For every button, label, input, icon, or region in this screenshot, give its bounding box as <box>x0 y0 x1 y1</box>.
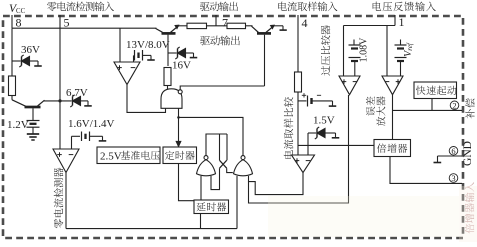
battery 1.08V reference <box>353 40 355 46</box>
NOR latch gate GA body <box>197 160 216 176</box>
label voltage feedback input (top) <box>373 2 382 11</box>
wire pin5 down to node A already; node A down to ZCD comparator <box>59 101 61 149</box>
resistor R2 drive output <box>187 23 207 28</box>
transistor Q1 emitter wire <box>32 108 34 120</box>
GA output bubble <box>204 156 208 160</box>
label overvoltage comparator (vertical) <box>321 66 330 75</box>
svg-text:6.7V: 6.7V <box>66 87 88 99</box>
pin 1 stub and label <box>394 15 396 26</box>
box quick start 快速起动 <box>414 82 457 99</box>
wire delay bottom to bus <box>200 214 202 229</box>
Q2 base diagonal from Vcc rail <box>156 28 163 32</box>
Q2 collector drop to 16V zener node <box>167 35 169 66</box>
wire Vcc rail top <box>12 27 157 29</box>
comparator U5 error amplifier triangle <box>382 76 403 95</box>
wire quick start to compensation node <box>431 99 433 111</box>
svg-text:1.6V/1.4V: 1.6V/1.4V <box>68 118 115 130</box>
NAND gate G1 body (dome up) <box>161 89 182 109</box>
label drive output (top) <box>200 2 209 11</box>
wire OVP comparator output to latch <box>249 95 349 203</box>
svg-text:1.2V: 1.2V <box>7 119 29 131</box>
box delay 延时器 <box>194 200 229 214</box>
zener D2 6.7V with label and ground stub <box>72 96 74 105</box>
pin 3 circled label <box>449 174 458 183</box>
GB right input wire junction <box>249 173 304 195</box>
G1 output bubble <box>178 90 182 94</box>
wire G1 output to Q3 <box>180 86 264 90</box>
label multiplier input (vertical, pink watermark) <box>465 224 474 233</box>
latch X right leg lower to GB left side <box>227 168 233 172</box>
node A junction dot <box>58 99 61 102</box>
label zero-current detector (vertical) <box>54 219 63 228</box>
battery 1.6V/1.4V for ZCD comparator <box>71 136 73 149</box>
GB output bubble <box>241 156 245 160</box>
wire timer bottom to delay box <box>179 164 195 201</box>
zener D1 36V with label and ground stub <box>12 60 21 62</box>
wire U2 output to NAND gate input <box>127 85 166 113</box>
pin 6 circled label <box>449 147 458 156</box>
wire U4 plus riser to feedback rail <box>343 26 345 77</box>
label error amplifier (two vertical columns) <box>366 107 375 116</box>
wire R4 to NAND gate top <box>167 86 169 90</box>
svg-text:36V: 36V <box>21 44 40 56</box>
wire G1/timer node to latch gate B output bubble <box>179 117 244 155</box>
transistor Q2 base bar (driver) <box>162 32 176 35</box>
NOR latch gate GB body <box>234 160 253 176</box>
ground below 1.2V battery <box>27 133 39 135</box>
Q3 emitter diagonal with arrow <box>266 25 275 32</box>
resistor R3 drive output <box>227 23 246 28</box>
latch X crossing wires <box>220 160 227 168</box>
Q3 base diagonal <box>252 26 259 32</box>
wire UVLO comparator plus riser <box>119 28 121 62</box>
box timer 定时器 <box>163 147 197 164</box>
svg-text:3: 3 <box>451 173 455 183</box>
latch crossover right leg upper <box>226 134 228 160</box>
label zero-current detect input (top) <box>47 2 56 11</box>
pin 5 stub and label <box>59 15 61 101</box>
Q3 emitter stub termination <box>274 25 283 27</box>
svg-text:8: 8 <box>16 16 22 30</box>
svg-text:5: 5 <box>64 16 70 30</box>
pin 2 circled label <box>450 101 459 110</box>
box multiplier 倍增器 <box>374 140 411 157</box>
wire G1 bottom to timer with arrow <box>178 108 180 141</box>
svg-text:1.08V: 1.08V <box>359 37 370 63</box>
resistor R5 on current sense input <box>295 72 302 92</box>
resistor R4 above NAND gate <box>164 68 171 86</box>
comparator U3 current sense triangle <box>292 155 315 173</box>
svg-text:6: 6 <box>451 146 455 156</box>
transistor Q1 collector diagonal <box>38 100 45 106</box>
bottom bus wire <box>66 228 237 230</box>
wire A multiplier to comparator reference <box>298 144 376 146</box>
GB left input riser from bus <box>236 176 238 229</box>
zener D3 16V with ground stub <box>168 52 177 54</box>
wire U1 output down to bottom bus <box>65 173 67 229</box>
svg-text:GND: GND <box>462 141 474 166</box>
latch X left leg lower to GA right input <box>211 168 220 189</box>
comparator U1 zero-current detector triangle <box>53 149 79 173</box>
wire Q2 emitter to R2 <box>179 25 188 27</box>
wire R1 to Q1 base <box>11 96 13 100</box>
wire Q3 collector riser <box>264 35 266 86</box>
wire Vcc left branch down <box>11 28 13 76</box>
wire compensation node to pin 2 <box>393 109 463 111</box>
battery 1.2V <box>27 120 40 122</box>
label current sample input (top) <box>278 2 287 11</box>
pin 7 stub and label <box>215 15 217 26</box>
svg-text:13V/8.0V: 13V/8.0V <box>126 39 170 51</box>
feedback rail wire to pin 1 <box>344 25 396 27</box>
svg-text:2: 2 <box>452 100 456 110</box>
svg-text:2.5V: 2.5V <box>100 150 122 162</box>
latch crossover left leg upper <box>219 134 221 160</box>
pin 8 stub and label <box>11 15 13 28</box>
pin 4 stub and label <box>297 15 299 155</box>
svg-text:16V: 16V <box>172 59 191 71</box>
GA left input wire to delay box <box>200 176 202 200</box>
svg-text:4: 4 <box>302 16 308 30</box>
battery Vref reference <box>400 40 402 46</box>
comparator U2 UVLO 13V/8.0V triangle <box>114 62 140 85</box>
label drive output (inner) <box>200 36 210 45</box>
wire multiplier output to pin 3 <box>390 157 462 184</box>
pin 6 GND wire and ground stub <box>438 155 463 157</box>
watermark tint bottom right <box>268 196 459 237</box>
wire U5 minus riser to feedback rail <box>386 26 388 77</box>
svg-text:1: 1 <box>399 15 405 29</box>
box 2.5V reference voltage <box>97 147 160 164</box>
battery 1.5V offset on current sense <box>298 100 307 102</box>
transistor Q3 base bar (upper driver) <box>257 32 271 35</box>
Q2 emitter diagonal with arrow <box>171 25 180 32</box>
wire R2 to R3 with pin7 tap <box>207 25 228 27</box>
wire Q1 collector to node A <box>44 100 72 102</box>
junction dot G1-latch branch <box>177 116 180 119</box>
wire zener leg to wire A and comparator minus input <box>307 133 309 155</box>
GA output riser and cross-over top link <box>206 134 227 156</box>
zener D4 1.5V clamp with ground stub <box>308 132 316 134</box>
transistor Q1 base bar <box>25 106 41 109</box>
svg-text:1.5V: 1.5V <box>313 115 335 127</box>
comparator U4 overvoltage triangle <box>339 76 360 95</box>
resistor R1 (Vcc bleed) <box>9 76 16 96</box>
battery 13V/8.0V internal reference <box>133 55 135 62</box>
label compensation (vertical, right edge) <box>465 109 474 118</box>
label current sampling compare (vertical) <box>284 150 293 159</box>
wire U5 output to multiplier <box>392 95 394 140</box>
wire R3 to Q3 base <box>246 25 253 27</box>
